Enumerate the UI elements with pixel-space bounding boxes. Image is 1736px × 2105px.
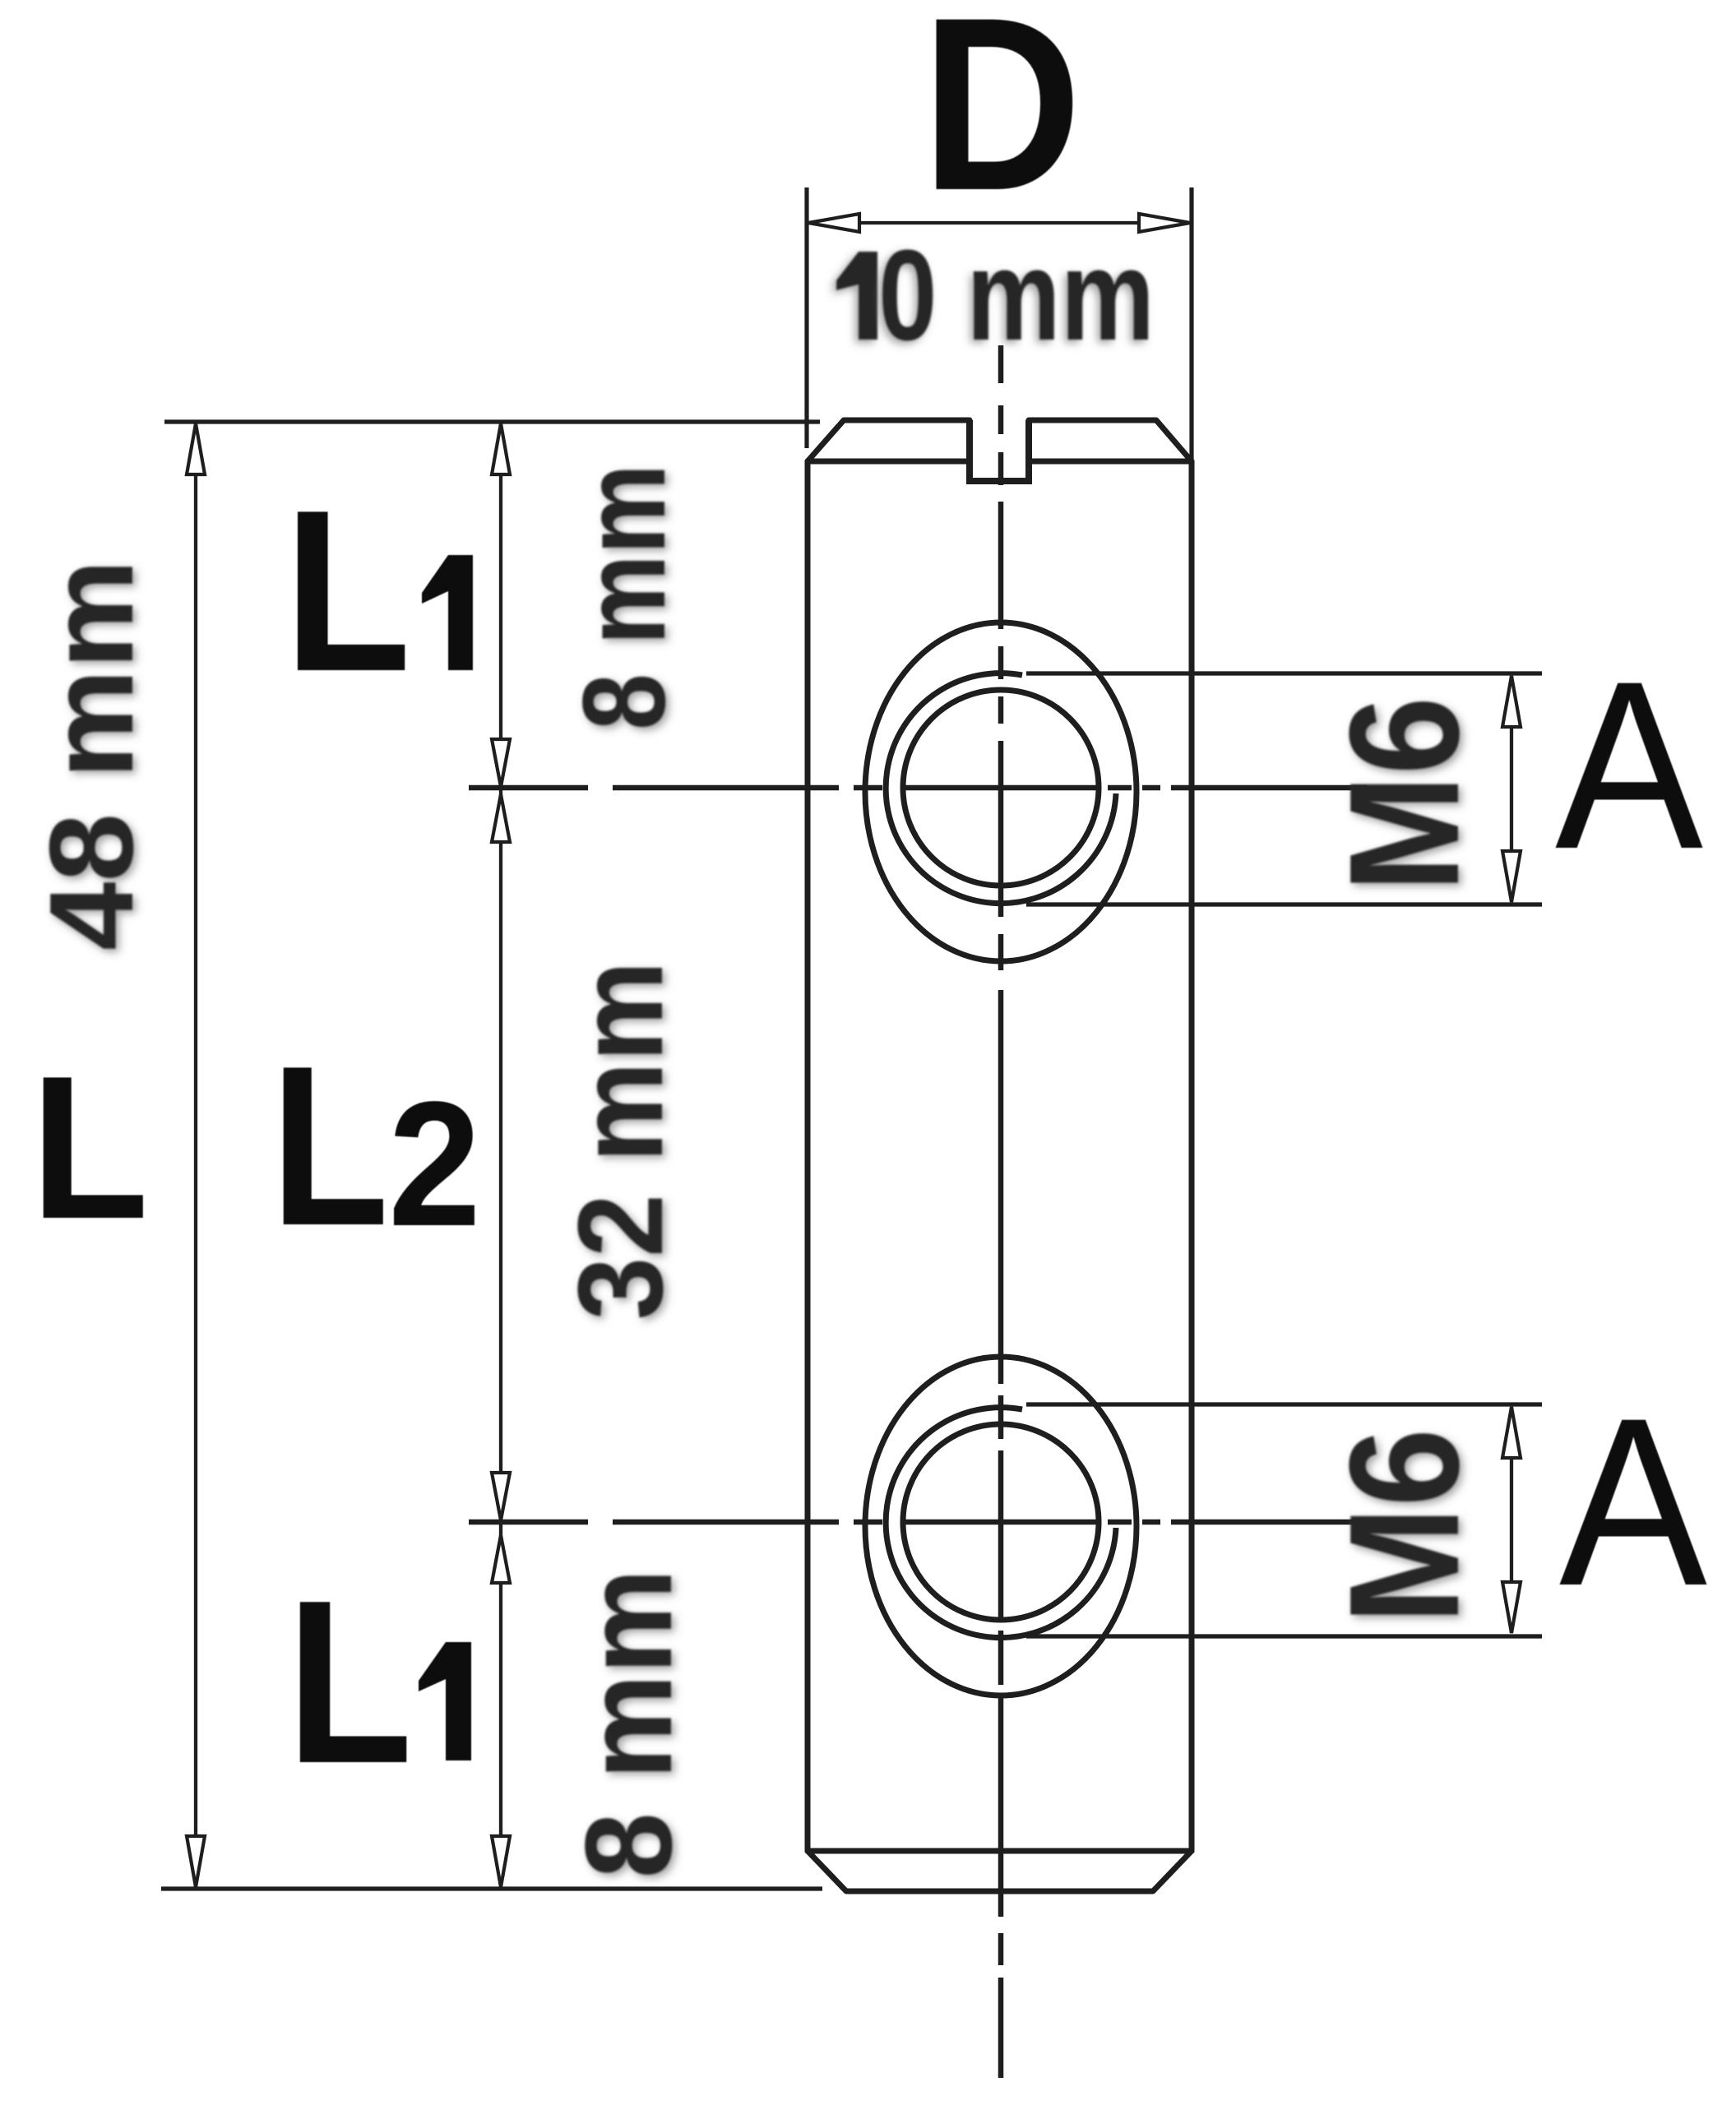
extension line D right: [1189, 187, 1193, 461]
arrow D right: [1139, 214, 1190, 232]
arrow L bottom: [187, 1836, 205, 1887]
M6 extension line hole2 top: [1026, 1402, 1542, 1406]
M6 extension line hole2 bottom: [1026, 1634, 1542, 1638]
svg-text:0 mm: 0 mm: [878, 224, 1155, 368]
hole 1 outer ellipse: [865, 622, 1137, 961]
bottom chamfers and bottom edge: [808, 1851, 1192, 1891]
part body left edge: [805, 461, 811, 1851]
svg-text:8 mm: 8 mm: [559, 464, 690, 730]
svg-text:D: D: [922, 0, 1082, 242]
svg-text:48 mm: 48 mm: [25, 559, 158, 951]
arrow L1 end at hole1: [492, 739, 510, 787]
top chamfer tangent line right: [1029, 459, 1192, 465]
hole 2 outer ellipse: [865, 1357, 1137, 1696]
extension line bottom (L / L1): [161, 1886, 822, 1890]
hole 1 inner circle: [903, 690, 1099, 886]
bottom chamfer tangent line: [808, 1848, 1192, 1854]
arrow L top: [187, 423, 205, 474]
arrow M6 hole1 bottom: [1502, 851, 1521, 902]
arrow L1b bottom: [492, 1836, 510, 1887]
M6 extension line hole1 bottom: [1026, 902, 1542, 906]
svg-text:L: L: [271, 1018, 389, 1273]
arrow L2 end at hole2: [492, 1473, 510, 1520]
arrow D left: [808, 214, 859, 232]
top chamfer tangent line left: [808, 459, 970, 465]
svg-text:A: A: [1555, 631, 1704, 899]
svg-text:2: 2: [388, 1064, 481, 1263]
label L1 top : 1: [422, 555, 473, 670]
hole 1 thread arc M6: [886, 673, 1116, 904]
hole 2 inner circle: [903, 1424, 1099, 1620]
hole 2 thread arc M6: [886, 1408, 1116, 1638]
arrow M6 hole2 bottom: [1502, 1582, 1521, 1633]
arrow L1 top: [492, 423, 510, 474]
svg-text:A: A: [1559, 1368, 1708, 1635]
svg-text:M6: M6: [1317, 696, 1492, 892]
extension line top (L / L1): [164, 419, 820, 423]
svg-text:32 mm: 32 mm: [553, 961, 688, 1321]
arrow L1b start at hole2: [492, 1535, 510, 1583]
svg-text:L: L: [286, 1552, 413, 1811]
hole 2 horizontal center line: [469, 1520, 1367, 1525]
dimension line L1 L2 L1: [499, 423, 502, 1887]
arrow L2 start at hole1: [492, 794, 510, 842]
screw slot at top: [970, 420, 1029, 481]
extension line D left: [804, 187, 808, 448]
svg-text:L: L: [30, 1033, 149, 1261]
vertical center line: [998, 345, 1004, 2078]
label L1 bottom : 1: [419, 1642, 471, 1760]
dimension line D: [808, 221, 1190, 224]
M6 extension line hole1 top: [1026, 671, 1542, 675]
svg-text:M6: M6: [1317, 1428, 1492, 1624]
arrow M6 hole1 top: [1502, 676, 1521, 727]
M6 dimension line hole1: [1510, 676, 1513, 902]
value 10 mm : 1: [836, 252, 877, 340]
top edge (right of slot) and top-right chamfer: [1029, 420, 1192, 461]
part body right edge: [1189, 461, 1195, 1851]
arrow M6 hole2 top: [1502, 1407, 1521, 1458]
svg-text:8 mm: 8 mm: [559, 1569, 697, 1879]
hole 1 horizontal center line: [469, 785, 1367, 791]
dimension line L: [194, 423, 197, 1887]
svg-text:L: L: [284, 463, 411, 719]
M6 dimension line hole2: [1510, 1407, 1513, 1633]
top-left chamfer and top edge (left of slot): [808, 420, 970, 461]
